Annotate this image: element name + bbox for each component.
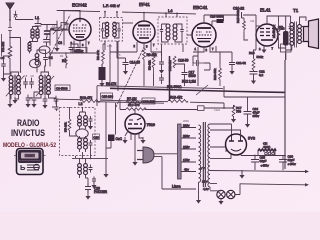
cap C26 [279, 156, 287, 171]
EF41 electrodes [137, 26, 151, 39]
right vertical main [284, 53, 287, 169]
HV wires to 5Y3 plates [210, 124, 232, 152]
wire L1 to tuning cap [47, 25, 57, 29]
coil L1 primary [31, 29, 34, 38]
pilot lamp 1 [217, 190, 225, 198]
resistor R19 vertical [232, 105, 235, 117]
IF1 cap left [101, 26, 104, 34]
svg-text:C20: C20 [93, 135, 99, 139]
coil pair C [78, 164, 88, 175]
wire bus top left [57, 10, 80, 12]
wire R16 top [254, 26, 257, 72]
svg-text:+450v: +450v [261, 164, 270, 168]
svg-text:C6: C6 [1, 56, 5, 60]
choke CH [258, 149, 276, 151]
wire under ECH42 [71, 41, 78, 44]
wire R14 [279, 44, 286, 48]
wire R15 [242, 18, 249, 40]
box under T1 [281, 44, 292, 52]
L4 cap right [180, 26, 183, 35]
cap right of C [89, 165, 93, 173]
svg-text:Ь: Ь [20, 163, 26, 172]
grid stopper to EF41 [122, 22, 133, 24]
L3 core [44, 75, 45, 95]
cap C21 [229, 58, 235, 69]
ECH42 grid wire left [50, 30, 69, 46]
cap C18 series [193, 60, 204, 66]
svg-text:R16: R16 [249, 51, 255, 55]
tap wires [181, 128, 196, 172]
cap C9 [76, 44, 80, 53]
svg-text:C8: C8 [46, 92, 50, 96]
ground cluster right [103, 171, 108, 178]
wire L3 top [41, 66, 49, 76]
vertical x224 [223, 86, 225, 97]
wire x10 to bottom row [4, 74, 11, 103]
ellipse socket [76, 129, 88, 138]
resistor R4 vertical [68, 119, 71, 132]
tuning eye tube [125, 114, 145, 134]
IF1 internal wires [103, 22, 120, 38]
switch bar [178, 124, 182, 179]
cap C12 [289, 27, 293, 32]
oscillator coil L3 windings [39, 76, 50, 95]
svg-text:C6: C6 [31, 74, 35, 78]
resistor R7 [126, 101, 144, 104]
box component on wire [198, 106, 205, 111]
coil L1 secondary [36, 29, 39, 38]
wire C3 down to ground row [56, 38, 58, 45]
EBC41 top lead [204, 15, 208, 23]
wire cluster mid verticals [110, 41, 162, 91]
cap C17 [182, 68, 188, 79]
coil pair A [78, 116, 88, 127]
mid bus y86 [97, 86, 223, 89]
L1b wires [30, 42, 33, 54]
transformer secondary winding [208, 124, 210, 187]
svg-text:R3-27k: R3-27k [96, 50, 100, 60]
wire left column down [10, 20, 21, 72]
IF transformer 1 box [100, 18, 123, 42]
L2 core [14, 75, 15, 95]
svg-text:500k: 500k [257, 55, 264, 59]
ground R19 [231, 116, 236, 123]
wire mid row [72, 148, 108, 158]
resistor R8 [143, 48, 146, 64]
resistor R5 on bus [80, 100, 100, 103]
wire osc bottoms [28, 92, 56, 98]
B+ line thick [110, 88, 285, 92]
pilot lamp 2 [227, 190, 235, 198]
gap cap in antenna lead [8, 28, 11, 31]
trimmer cap above L1 [35, 20, 41, 29]
svg-text:5000: 5000 [189, 74, 196, 78]
transformer core [203, 122, 205, 187]
vertical wire x64 grid feed [64, 11, 69, 45]
wire pin row to osc [50, 53, 96, 66]
ground C16 [159, 67, 164, 74]
EBC41 grid side lead [187, 34, 192, 36]
svg-text:L1: L1 [35, 16, 39, 20]
boxed label under ECH42 [73, 48, 88, 54]
wire R17 [120, 101, 198, 114]
trimmer arrow L3 [36, 76, 54, 96]
svg-text:EF41: EF41 [139, 2, 150, 7]
svg-text:R5-10k: R5-10k [64, 122, 68, 132]
cap C7 [69, 44, 73, 53]
svg-text:T1: T1 [293, 8, 299, 13]
coil L1b lower [28, 42, 31, 51]
EL41 electrodes [260, 29, 275, 41]
junction dots top bus [79, 10, 81, 12]
cap left edge [2, 60, 6, 72]
node dots psu [254, 155, 256, 157]
dashed gang line mid [116, 47, 144, 107]
cap left top [55, 106, 59, 112]
wire C24 top [247, 97, 249, 106]
EF41 top lead [143, 13, 145, 21]
svg-text:C15-100: C15-100 [102, 95, 114, 99]
svg-text:EBC41: EBC41 [193, 5, 208, 10]
svg-text:C3: C3 [52, 24, 56, 28]
wire C14 top [117, 50, 126, 58]
svg-text:L4: L4 [168, 8, 173, 13]
svg-text:4,3v: 4,3v [203, 187, 209, 191]
cap right of B [89, 140, 93, 148]
cap C24 [244, 106, 252, 121]
svg-text:C21-02: C21-02 [236, 61, 246, 65]
wire L1 bottoms [33, 38, 38, 41]
ECH42 top cap to bus [79, 11, 81, 19]
trimmer arrow L2 [6, 76, 24, 96]
wire left edge [4, 56, 11, 76]
svg-text:R7-1M: R7-1M [127, 97, 137, 101]
antenna coupling cap C1 [14, 11, 17, 17]
svg-text:R18-47k: R18-47k [170, 96, 182, 100]
top bus wire [64, 11, 196, 14]
AVC bus y101 [57, 99, 224, 103]
padder cap C20 [85, 183, 91, 193]
bottom return wire [241, 170, 243, 174]
svg-text:R4: R4 [60, 54, 64, 58]
node dot [9, 19, 11, 21]
resistor R13 [219, 64, 222, 86]
EBC41 electrodes [196, 28, 212, 42]
svg-text:R14-100k: R14-100k [272, 24, 276, 38]
oscillator coil L2 windings [9, 76, 20, 95]
tube EF41 envelope [133, 21, 155, 43]
dashed gang line left [50, 15, 70, 56]
ground C22 [251, 78, 256, 85]
resistor R3 vertical [102, 44, 105, 67]
EL41 anode to T1 [267, 16, 291, 24]
coil C wires [80, 158, 89, 183]
EL41 cathode ground [263, 46, 265, 49]
EF41 pin leads [137, 41, 151, 52]
svg-text:32µF: 32µF [260, 159, 267, 163]
svg-text:R18-47k: R18-47k [80, 96, 92, 100]
wire R4 [70, 107, 77, 136]
wire C13 [97, 64, 102, 106]
cap under C2 [44, 38, 50, 46]
svg-text:C13: C13 [107, 44, 112, 48]
lamp wires [217, 183, 240, 200]
svg-text:C18-50: C18-50 [178, 59, 189, 63]
wire L2 top [10, 72, 19, 76]
tube ECH42 envelope [69, 19, 91, 41]
wire ECH42 pins down [74, 40, 86, 53]
ground C21 [229, 68, 234, 75]
EL41 grid lead [256, 25, 262, 27]
resistor R18 on bus [168, 100, 188, 103]
IF transformer L4 box [158, 17, 187, 44]
ground below C [91, 182, 96, 189]
L4 leads [162, 13, 184, 56]
resistor R9 vertical [152, 52, 155, 74]
5Y3 filament leads [231, 154, 241, 159]
ellipse socket upper [39, 46, 50, 54]
svg-text:C22n: C22n [214, 108, 221, 112]
ground C14 [123, 68, 128, 75]
mains plug [143, 147, 154, 163]
tuning cap C3 [54, 21, 60, 38]
svg-text:R6-17k: R6-17k [106, 82, 117, 86]
ground eye mid [140, 137, 145, 144]
wire 5Y3 out to choke [241, 150, 285, 156]
cap right of A [89, 116, 93, 124]
caps C5 C6 between cans [24, 78, 28, 88]
cord down to linea [161, 157, 163, 189]
cap C4 [44, 54, 48, 63]
svg-text:750: 750 [236, 110, 241, 114]
T1 primary [290, 23, 294, 46]
wire C19 [212, 15, 224, 25]
svg-text:ECH42: ECH42 [72, 3, 87, 8]
IF1 leads to bus [105, 11, 117, 18]
tube EBC41 envelope [192, 23, 216, 47]
cap below C [92, 177, 96, 184]
IF1 winding A [105, 22, 109, 36]
svg-text:7529: 7529 [147, 123, 155, 127]
caps bottom row under osc [26, 95, 30, 103]
eye tube lower wires [125, 131, 143, 160]
wire L1 tops [33, 25, 48, 29]
resistor R17 above eye [126, 108, 146, 111]
wire R14 top [278, 16, 280, 22]
svg-text:6 V: 6 V [200, 167, 205, 171]
wires around L3b [37, 50, 46, 72]
svg-text:R13-56k: R13-56k [213, 68, 217, 80]
svg-text:288: 288 [27, 154, 32, 158]
svg-text:EL41: EL41 [260, 8, 271, 13]
coil pair B [78, 138, 88, 149]
wire box to R19 [204, 103, 234, 108]
boxed label left [55, 85, 70, 91]
tube 5Y3 envelope [226, 134, 247, 155]
left edge vertical [1, 34, 3, 56]
speaker wires [300, 17, 307, 42]
svg-text:PADDER: PADDER [94, 190, 108, 194]
svg-text:L.F. 442 c/: L.F. 442 c/ [103, 4, 120, 8]
svg-text:400Ω: 400Ω [263, 145, 271, 149]
grounds bottom row [25, 101, 30, 108]
boxed label C16-100 [142, 98, 155, 104]
svg-text:C14-35: C14-35 [130, 61, 141, 65]
T1 secondary [298, 25, 302, 44]
node dots osc [65, 52, 67, 54]
top right bus [208, 15, 256, 26]
svg-text:C5: C5 [24, 74, 28, 78]
coil A wires [80, 107, 86, 129]
ECH42 electrodes [73, 19, 87, 38]
C2 stems [46, 26, 48, 38]
wire EBC41 pins [193, 46, 220, 86]
wire cap left [52, 99, 57, 107]
wire C23 [285, 16, 287, 60]
IF1 winding B [113, 22, 117, 36]
T1 primary bottom wire [286, 45, 292, 50]
wire C21 top [216, 46, 232, 58]
svg-text:350v: 350v [253, 114, 260, 118]
wire linea [162, 188, 196, 190]
svg-text:R17-470: R17-470 [128, 103, 140, 107]
svg-text:C8: C8 [58, 41, 62, 45]
heavy vertical x169 [169, 56, 171, 101]
svg-text:C4: C4 [49, 56, 53, 60]
cap C22 [250, 72, 258, 80]
misc tiny labels [24, 19, 255, 123]
wire L2 bottom to ground [11, 95, 19, 100]
ground C24 [245, 121, 250, 128]
cap C15 [159, 74, 164, 84]
cap C2 dark [45, 31, 51, 34]
resistor R16 [252, 59, 255, 71]
L4 cap left [160, 26, 163, 35]
cap C16 [159, 58, 164, 68]
choke circles [265, 152, 268, 155]
wire R3 top [103, 41, 105, 44]
svg-text:0,2: 0,2 [259, 73, 264, 77]
speaker [304, 19, 319, 49]
svg-text:12 v: 12 v [202, 179, 208, 183]
svg-text:3000: 3000 [183, 119, 189, 123]
svg-text:+450v: +450v [288, 162, 297, 166]
svg-text:200v: 200v [183, 134, 190, 138]
resistor R14 [277, 22, 280, 44]
plug prongs [137, 151, 143, 160]
svg-text:CaC: CaC [116, 137, 123, 141]
svg-text:C7: C7 [29, 96, 33, 100]
resistor R2 [65, 53, 67, 68]
L4 winding A [166, 24, 170, 40]
trimmer arrow C3 [53, 25, 62, 34]
L4 internal wires [162, 24, 183, 42]
coil L3b small upper [35, 54, 39, 65]
y97 wire [224, 96, 285, 98]
svg-text:220v: 220v [183, 124, 190, 128]
svg-text:R9-22k: R9-22k [148, 60, 152, 70]
5Y3 plates [229, 135, 243, 151]
svg-text:R10-1M: R10-1M [168, 60, 172, 71]
svg-text:5Y3: 5Y3 [248, 136, 256, 141]
resistor R15 [243, 18, 246, 32]
heater taps right [210, 171, 305, 191]
ground cap A [88, 123, 93, 130]
svg-text:C9-5000: C9-5000 [56, 86, 68, 90]
antenna [6, 3, 14, 20]
ground left edge [1, 75, 6, 82]
svg-text:R15-560k: R15-560k [236, 9, 240, 23]
tube EL41 envelope [256, 24, 278, 46]
svg-text:175v: 175v [183, 158, 190, 162]
cap C13 dark [99, 67, 106, 80]
transformer primary winding [199, 125, 201, 182]
vertical right of cluster [106, 102, 116, 172]
boxed label mid [101, 93, 113, 99]
wire sec to 5Y3 right [210, 130, 241, 159]
svg-text:C11: C11 [250, 19, 255, 23]
ground under C3 [54, 45, 59, 52]
plug cord [154, 154, 177, 157]
ground lamps [218, 198, 223, 205]
node dots mid row [82, 158, 84, 160]
svg-text:R12 2,2M: R12 2,2M [182, 80, 196, 84]
IF1 bottom leads [105, 41, 117, 50]
ellipse socket left [30, 59, 41, 67]
resistor R1 [8, 46, 12, 74]
dashed box coil cluster [60, 108, 96, 156]
series cap C10 [238, 12, 242, 18]
svg-text:40v: 40v [184, 168, 189, 172]
svg-text:INVICTUS: INVICTUS [11, 127, 45, 138]
ground under L2 [12, 97, 17, 104]
dark cap CAC [108, 135, 115, 142]
transformer ground [199, 182, 211, 198]
resistor R10 [173, 56, 176, 68]
wire antenna to L1 [16, 18, 34, 20]
ground eye left [122, 137, 127, 144]
IF1 cap right [117, 26, 120, 34]
coil B wires [80, 136, 86, 152]
svg-text:R8-20k: R8-20k [147, 53, 158, 57]
volume pot arrow [196, 85, 208, 95]
L4 winding B [173, 24, 177, 40]
ground under osc caps [31, 101, 36, 108]
svg-text:125v: 125v [183, 145, 190, 149]
electrolytic C23 [283, 31, 289, 46]
ground eye bottom [132, 159, 137, 166]
ground padder [85, 193, 90, 200]
svg-text:C10-22: C10-22 [233, 7, 244, 11]
badge logo [14, 149, 46, 175]
wire C17 [175, 64, 185, 86]
box on grid line [61, 23, 67, 30]
svg-text:L2: L2 [79, 102, 83, 106]
cap C14 [123, 58, 129, 69]
boxed label C20 [93, 134, 100, 140]
cap C19 [217, 19, 224, 23]
transformer T1 core [295, 22, 297, 48]
eye tube electrodes [128, 118, 142, 129]
ground C13 [99, 80, 104, 87]
cap C25 [251, 156, 259, 171]
svg-text:Línea: Línea [172, 185, 181, 189]
